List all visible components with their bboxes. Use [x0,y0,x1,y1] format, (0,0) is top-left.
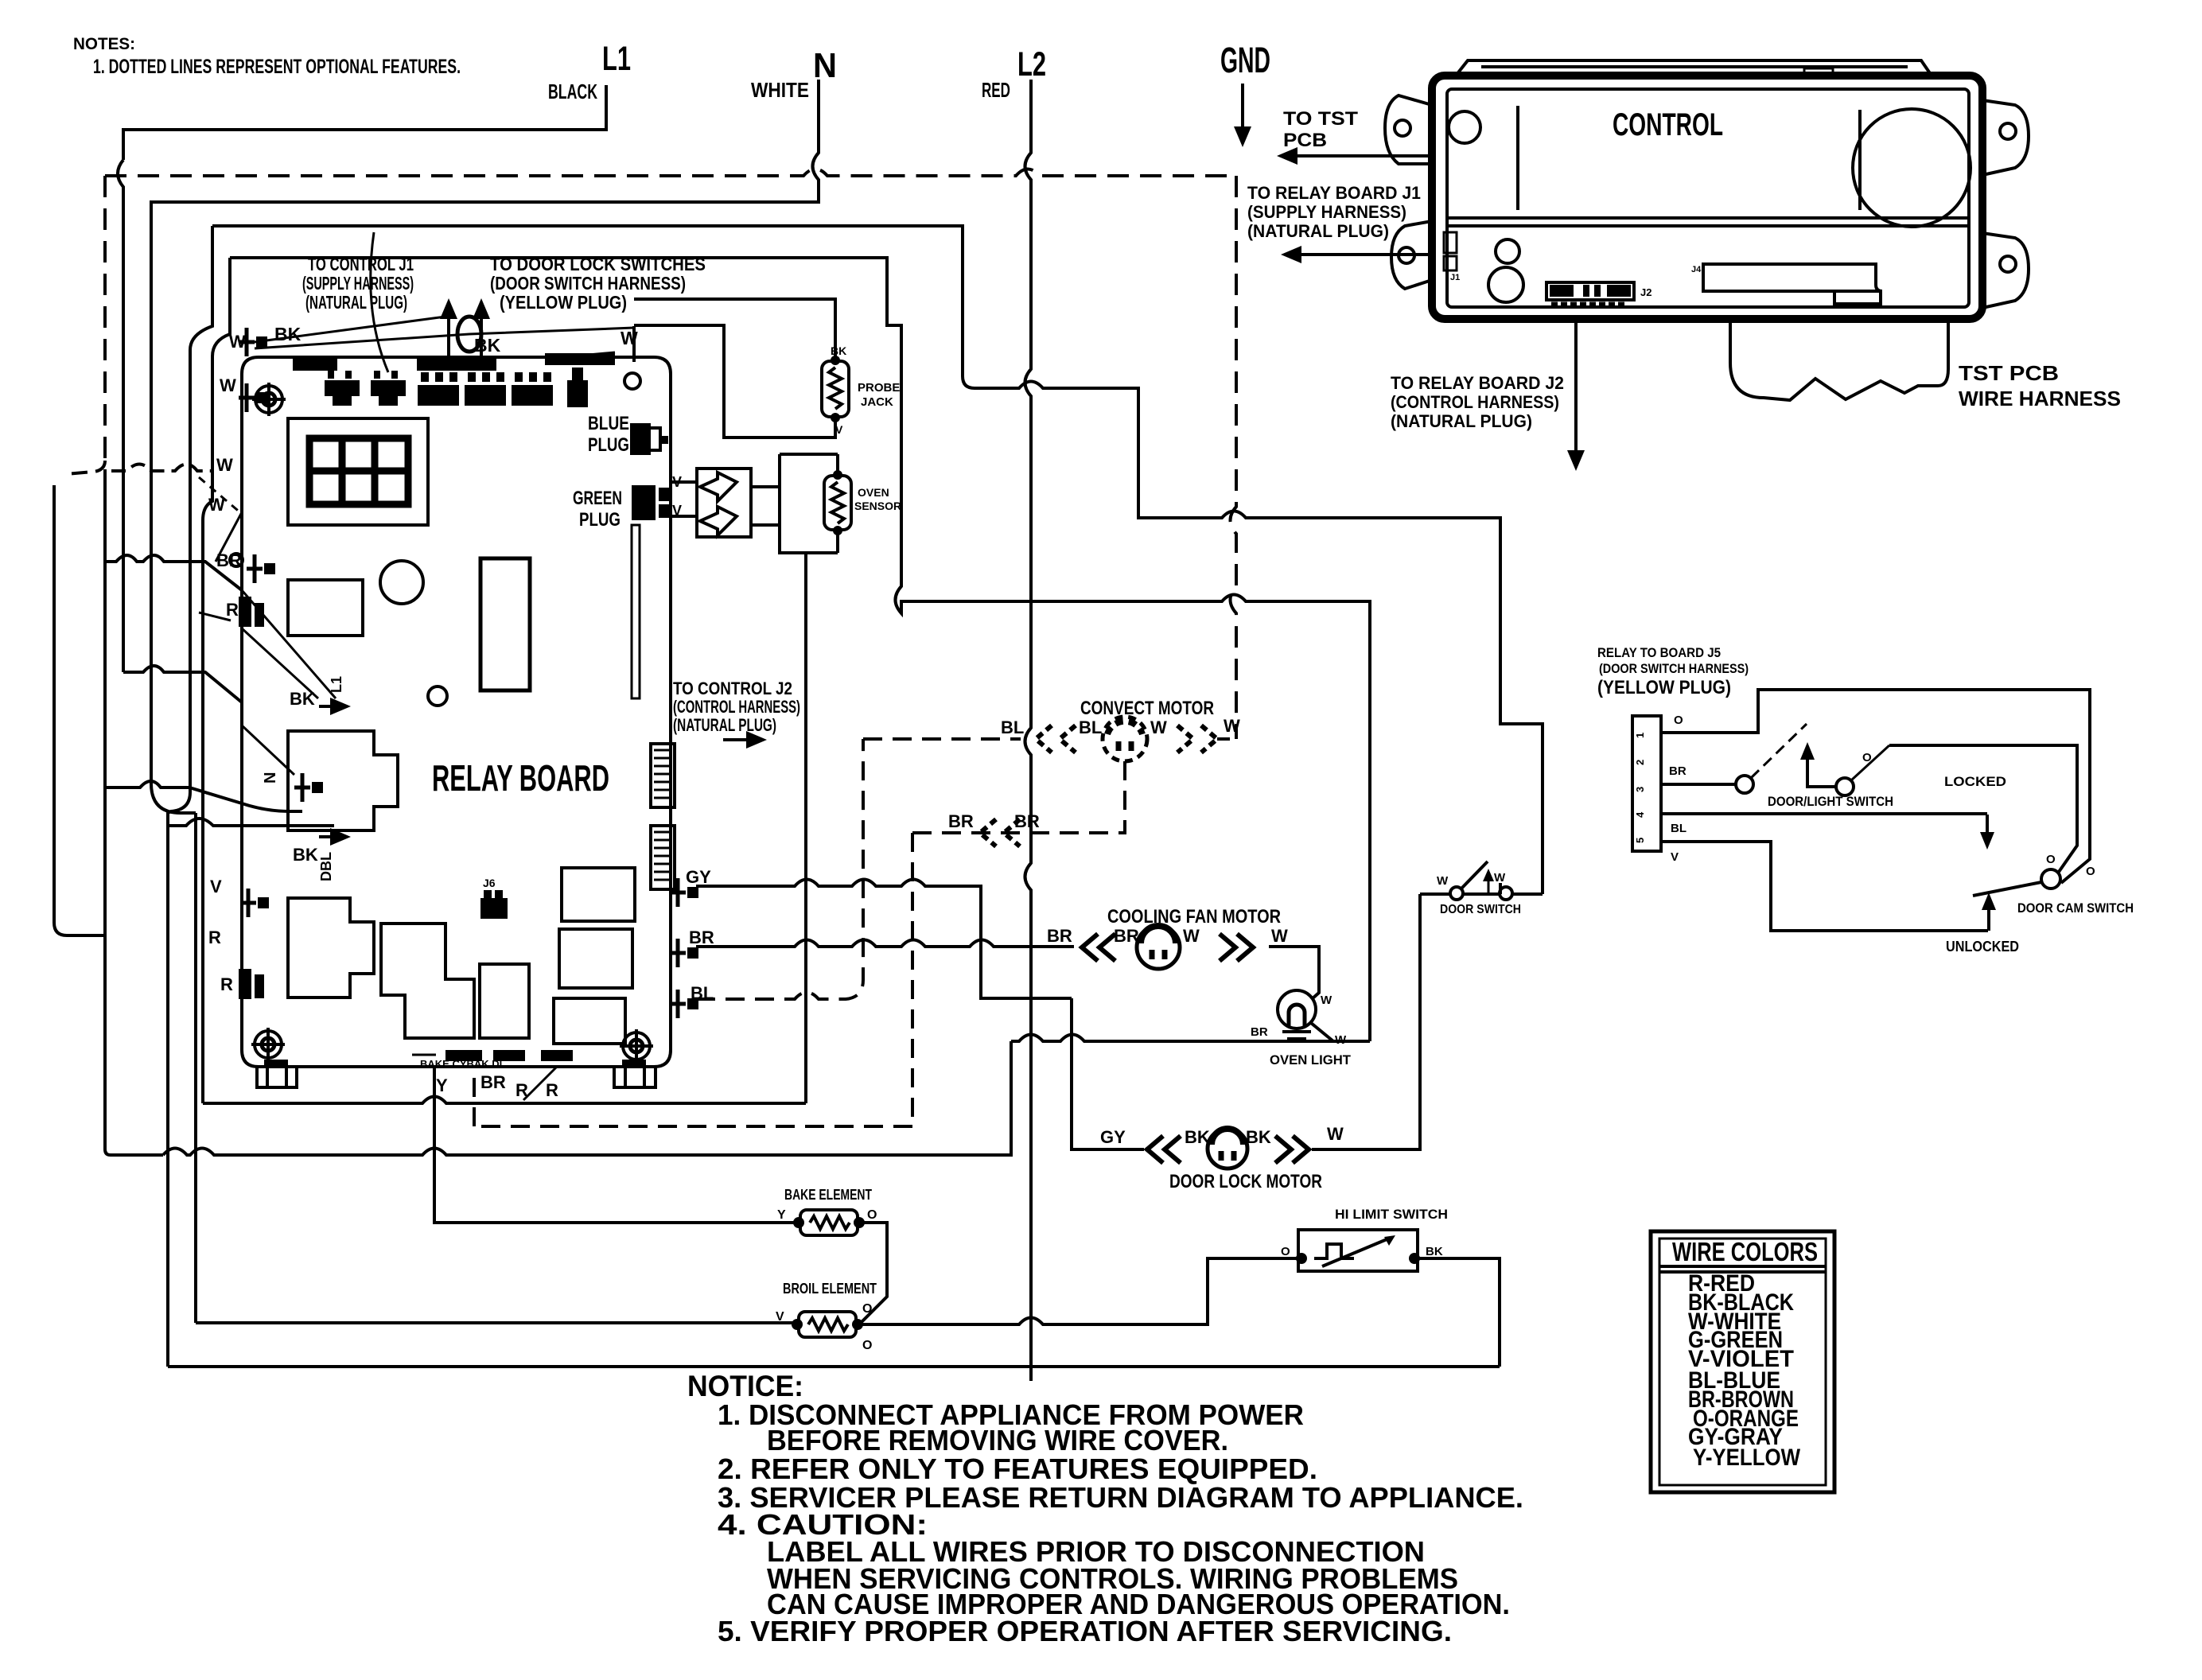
to relay j2 arrow [1574,319,1578,445]
svg-text:3: 3 [1634,787,1646,792]
dashed GND left drop [103,176,107,461]
convect chevrons left dashed [1036,725,1076,752]
svg-text:2. REFER ONLY TO FEATURES: 2. REFER ONLY TO FEATURES EQUIPPED. [718,1452,1317,1485]
wire harness down right [230,258,1370,1041]
svg-text:BR: BR [1669,764,1687,778]
svg-text:DOOR/LIGHT SWITCH: DOOR/LIGHT SWITCH [1768,794,1893,809]
fan chevrons left [1082,934,1115,961]
br wire to fan [696,940,1074,947]
svg-text:BLUE: BLUE [588,413,629,434]
svg-text:BK: BK [1426,1245,1443,1258]
J1 connector in box [1444,232,1457,270]
box pin header J2 [1546,282,1634,304]
door switch circles [1450,887,1463,900]
top connector 5 [512,372,553,406]
svg-text:LOCKED: LOCKED [1944,774,2006,789]
svg-text:WHITE: WHITE [751,78,809,102]
top connector J1 [325,371,360,406]
svg-text:TO RELAY BOARD J2: TO RELAY BOARD J2 [1391,373,1564,393]
terminal BR [247,554,275,583]
bottom edge terminals [445,1050,573,1061]
hop L1 over dashed [118,160,123,557]
oven light symbol [1278,990,1316,1039]
svg-text:WIRE COLORS: WIRE COLORS [1672,1237,1818,1266]
wire L2 drop [1025,80,1032,1381]
svg-text:HI LIMIT SWITCH: HI LIMIT SWITCH [1335,1207,1448,1222]
svg-text:NOTICE:: NOTICE: [687,1370,803,1402]
harness arrows up [448,319,450,342]
top connector J2 [371,371,406,406]
locked wire [1889,745,2077,872]
svg-text:BR: BR [948,811,974,831]
svg-text:O: O [862,1339,872,1352]
wire x1013 [804,553,807,1103]
blue plug connector [630,423,668,455]
svg-text:GND: GND [1220,40,1270,80]
svg-text:V: V [1671,850,1679,864]
relay board top thick segments [293,353,615,371]
left optional rail [54,485,105,935]
unlocked up arrow [1987,910,1990,931]
svg-text:SENSOR: SENSOR [854,500,901,512]
dashed GND rail [105,169,1236,177]
svg-text:(SUPPLY HARNESS): (SUPPLY HARNESS) [302,273,414,294]
svg-text:JACK: JACK [861,395,893,409]
wire L1 drop [123,85,606,160]
svg-text:BK: BK [274,324,302,344]
svg-text:TO RELAY BOARD J1: TO RELAY BOARD J1 [1247,183,1421,203]
svg-text:GY: GY [1100,1127,1126,1147]
svg-text:W: W [1150,717,1167,737]
W terminal arrow [242,725,294,775]
control box lid [1456,60,1932,76]
svg-text:(SUPPLY HARNESS): (SUPPLY HARNESS) [1247,202,1406,222]
control ear bottom-right [1982,233,2029,308]
rail B [203,1097,806,1104]
box connector bar [1703,264,1882,304]
wire x267 top [190,226,212,477]
fan chevrons right [1220,934,1253,961]
svg-text:BK: BK [293,845,318,865]
svg-text:(NATURAL PLUG): (NATURAL PLUG) [1247,221,1389,241]
svg-text:GREEN: GREEN [573,488,622,509]
svg-text:BK: BK [1185,1127,1210,1147]
svg-text:R: R [226,600,239,620]
top connector 4 [465,372,506,406]
relay board outline [242,357,671,1067]
relay circle [380,561,423,604]
svg-text:DBL: DBL [318,852,334,881]
bottom foot left [257,1060,297,1087]
screw bottom-right [620,1029,653,1063]
svg-text:WIRE HARNESS: WIRE HARNESS [1959,387,2121,410]
pin4 down arrow [1986,815,1989,832]
wire tangle h1 [105,555,242,590]
svg-text:BAKE ELEMENT: BAKE ELEMENT [784,1187,872,1203]
control ear top-right [1982,100,2029,175]
terminal W1 [239,328,267,356]
bottom foot right [614,1060,656,1087]
door/light arm [1751,724,1807,778]
svg-text:O: O [862,1302,872,1316]
svg-text:COOLING FAN MOTOR: COOLING FAN MOTOR [1107,906,1281,927]
bake wires [434,1067,887,1324]
svg-text:O: O [2086,865,2095,878]
oven sensor wires [671,482,780,525]
svg-text:DOOR SWITCH: DOOR SWITCH [1440,903,1521,916]
top connector 3 [418,372,459,406]
J5 pin1 wire [1661,690,2090,883]
door cam switch circle [2041,869,2060,889]
svg-text:(NATURAL PLUG): (NATURAL PLUG) [305,292,407,313]
svg-text:J2: J2 [1640,286,1651,298]
svg-text:W: W [1224,716,1240,736]
svg-text:O: O [867,1208,877,1222]
svg-text:TST PCB: TST PCB [1959,361,2059,385]
svg-text:BEFORE REMOVING WIRE COVER.: BEFORE REMOVING WIRE COVER. [767,1424,1228,1456]
svg-text:R: R [220,974,233,994]
wire N lower x246 [194,813,197,1323]
dashed bottom run [474,1075,912,1126]
svg-text:BK: BK [831,344,846,357]
N plug polygon [288,731,398,830]
diag stub R [199,612,231,620]
svg-text:BR: BR [480,1072,506,1092]
svg-text:O: O [1674,714,1683,727]
svg-text:R: R [208,927,221,947]
svg-text:BK: BK [1246,1127,1271,1147]
control big circle [1853,109,1971,227]
svg-text:Y: Y [436,1075,448,1095]
door cam arm [1973,882,2041,896]
svg-text:PLUG: PLUG [579,509,621,531]
hi limit switch [1296,1230,1420,1271]
control circle small [1449,111,1480,143]
wire tangle h2 [123,666,242,702]
svg-text:UNLOCKED: UNLOCKED [1946,939,2019,955]
rail A to right [163,1041,1011,1155]
svg-text:NOTES:: NOTES: [73,35,135,53]
svg-text:TO CONTROL J2: TO CONTROL J2 [673,679,792,698]
svg-text:RELAY TO BOARD J5: RELAY TO BOARD J5 [1597,645,1721,660]
svg-text:N: N [262,772,279,784]
screw bottom-left [251,1028,285,1061]
BK L1 arrow into board [242,590,336,698]
top connector blue [567,367,588,407]
svg-text:4: 4 [1634,811,1646,818]
svg-text:(CONTROL HARNESS): (CONTROL HARNESS) [673,697,800,717]
relay rect 2 [559,929,632,988]
svg-text:BR: BR [689,927,714,947]
keypad grid [309,438,408,504]
output terminal GY [670,878,698,907]
wire left rail x131 [105,469,163,1155]
tall component [480,558,530,690]
svg-text:W: W [1183,926,1200,946]
wire staircase white [212,226,1543,894]
control box divider [1447,218,1969,226]
convect drop dashed [912,761,1125,833]
J2 pin header [651,744,675,807]
bake element [793,1210,865,1235]
oven sensor [824,470,851,535]
svg-text:W: W [1494,871,1506,885]
small rect component [480,964,529,1038]
svg-text:DOOR CAM SWITCH: DOOR CAM SWITCH [2017,900,2134,916]
probe jack [822,356,849,422]
svg-text:O: O [1862,751,1872,764]
diag stub W1 [216,512,242,562]
convect chevrons right dashed [1177,725,1217,752]
door/light up arrow [1806,760,1809,778]
svg-text:W: W [220,375,236,395]
svg-text:OVEN: OVEN [858,486,889,499]
fan wire right [1269,947,1319,999]
svg-text:O: O [1281,1245,1290,1258]
J5 pin3 wire [1661,783,1736,786]
ic rect [288,580,363,636]
screw top-left [252,383,286,416]
J3 pin header [651,826,675,889]
dashed jog left [65,461,105,474]
door/light arm2 [1851,745,1889,780]
terminal V [240,889,269,917]
svg-text:W: W [1437,874,1449,888]
svg-text:O: O [2046,853,2056,866]
terminal R1 [239,597,264,627]
svg-text:W: W [1271,926,1288,946]
wire x289 drop [203,258,230,1103]
hi limit right wire [168,1258,1500,1367]
convect motor symbol [1103,717,1147,761]
svg-text:(NATURAL PLUG): (NATURAL PLUG) [673,715,776,735]
harness O ring [457,317,481,352]
dlm chevrons left [1147,1136,1181,1163]
control box inner [1447,89,1969,307]
control ear top-left [1385,95,1432,164]
svg-text:1. DOTTED LINES REPRESENT OPTI: 1. DOTTED LINES REPRESENT OPTIONAL FEATU… [93,56,461,78]
J5 pin5 wire [1661,842,1988,931]
small hole [428,686,447,706]
gy wire [696,880,1072,999]
board hole [624,373,640,389]
control box outer [1432,76,1982,319]
L step polygon [381,924,474,1038]
svg-text:R: R [546,1080,558,1100]
svg-text:GY: GY [686,867,711,887]
door lock motor symbol [1208,1129,1247,1169]
wire x239 [189,350,192,792]
svg-text:L1: L1 [329,676,344,693]
V plug polygon [288,898,374,997]
box circles middle [1496,239,1519,263]
wire tangle h3 [105,781,302,811]
green plug connector [632,485,671,520]
svg-text:2: 2 [1634,760,1646,765]
wire N drop [151,80,819,813]
wire colors box [1651,1231,1834,1492]
svg-text:J1: J1 [1450,273,1460,282]
door/light switch circle1 [1736,776,1753,793]
svg-text:(DOOR SWITCH HARNESS): (DOOR SWITCH HARNESS) [1599,661,1749,676]
svg-text:(NATURAL PLUG): (NATURAL PLUG) [1391,411,1532,431]
svg-text:(CONTROL HARNESS): (CONTROL HARNESS) [1391,392,1559,412]
svg-text:V: V [210,877,222,896]
door switch wires [1420,892,1543,896]
svg-text:1: 1 [1634,733,1646,738]
svg-text:W: W [216,455,233,475]
svg-text:BK: BK [474,335,501,356]
svg-text:BL: BL [1079,717,1102,737]
svg-text:CONVECT MOTOR: CONVECT MOTOR [1080,698,1214,719]
svg-text:OVEN LIGHT: OVEN LIGHT [1270,1052,1352,1067]
door switch arm [1461,861,1488,889]
relay rect 3 [554,998,625,1044]
svg-text:J6: J6 [483,877,496,889]
to relay j1 arrow [1301,253,1410,256]
svg-text:DOOR LOCK MOTOR: DOOR LOCK MOTOR [1169,1171,1322,1192]
svg-text:PROBE: PROBE [858,381,900,395]
terminal R2 [239,969,264,999]
svg-text:PLUG: PLUG [588,434,629,456]
svg-text:CONTROL: CONTROL [1613,107,1723,142]
svg-text:BR: BR [1251,1025,1268,1039]
harness wires [449,315,634,366]
svg-text:BROIL ELEMENT: BROIL ELEMENT [783,1281,877,1297]
keypad connector box [288,418,428,525]
svg-text:W: W [621,328,638,348]
oven light wires [1011,1023,1370,1041]
oven sensor chevron box [697,469,751,537]
svg-text:RED: RED [982,78,1010,102]
svg-text:5: 5 [1634,838,1646,843]
svg-text:(YELLOW PLUG): (YELLOW PLUG) [1597,677,1731,698]
svg-text:W: W [1327,1124,1344,1144]
svg-text:V: V [835,423,843,436]
door/light switch circle2 [1836,778,1854,795]
output terminal BL [670,990,698,1018]
svg-text:5. VERIFY PROPER OPERATION: 5. VERIFY PROPER OPERATION AFTER SERVICI… [718,1615,1452,1647]
svg-text:Y-YELLOW: Y-YELLOW [1693,1445,1801,1471]
dashed BR wire [911,833,914,1126]
GND arrow [1241,84,1244,126]
dlm chevrons right [1275,1136,1309,1163]
J5 connector [1632,716,1661,851]
svg-text:(YELLOW PLUG): (YELLOW PLUG) [500,292,627,313]
wire bk dbl h4 [168,819,334,826]
broil wires [196,1258,1297,1324]
dashed GND drop right [1231,176,1237,739]
convect right dashed wire [1217,737,1236,741]
J6 connector [480,890,508,919]
svg-text:PCB: PCB [1283,130,1327,151]
R diagonal stub [523,1067,557,1100]
J5 pin4 wire [1661,812,1987,815]
svg-text:W: W [1321,994,1332,1007]
output terminal BR [670,939,698,967]
svg-text:(DOOR SWITCH HARNESS): (DOOR SWITCH HARNESS) [490,273,686,294]
control tick left [1516,106,1519,210]
svg-text:RELAY BOARD: RELAY BOARD [432,757,609,799]
svg-text:N: N [813,46,837,85]
svg-text:L1: L1 [602,40,631,78]
control ear bottom-left [1391,221,1432,289]
pcb slot bar [632,525,640,698]
terminal W2 [239,383,267,412]
svg-text:L2: L2 [1017,45,1046,84]
door lock motor wires [1072,894,1420,1149]
door switch arrow [1488,881,1490,892]
j2 arrow [723,738,746,741]
to tst arrow [1297,154,1426,157]
control box lid notch [1804,68,1833,76]
svg-text:BLACK: BLACK [548,80,597,103]
svg-text:J4: J4 [1691,265,1702,274]
svg-text:Y: Y [777,1208,786,1222]
fan motor symbol [1137,926,1180,969]
broil element [792,1312,863,1337]
dashed stub to board [111,465,212,472]
dashed BL wire [696,739,863,999]
wire x239 jog to x211 [168,792,190,1367]
control tick right [1858,110,1862,210]
relay rect 1 [562,868,635,921]
tst pcb harness squiggle [1730,319,1948,400]
svg-text:BL: BL [1671,822,1687,835]
svg-text:TO TST: TO TST [1283,108,1358,130]
wire L1 vertical [122,557,125,672]
probe jack wire [634,299,835,437]
svg-text:BR: BR [1047,926,1072,946]
svg-text:BL: BL [1001,717,1024,737]
svg-text:BK: BK [290,689,315,709]
